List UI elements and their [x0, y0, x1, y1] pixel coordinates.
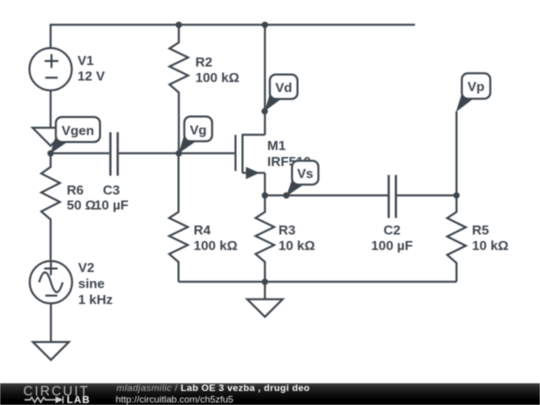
svg-text:C2: C2 — [384, 222, 401, 237]
logo diode — [56, 396, 64, 403]
wire top rail — [51, 24, 415, 26]
voltage source V1 — [29, 48, 71, 90]
transistor M1 arrow — [246, 167, 260, 179]
svg-text:12 V: 12 V — [78, 68, 105, 83]
resistor R6 — [41, 153, 60, 260]
svg-text:M1: M1 — [267, 138, 286, 153]
node dot Vg — [176, 150, 182, 156]
wire V1 to ground — [50, 90, 52, 128]
wire V1 top lead — [50, 24, 52, 49]
node dot top rail R2 — [176, 22, 182, 28]
node dot Vs flag — [283, 192, 289, 198]
logo schematic line — [25, 396, 64, 403]
svg-text:Vp: Vp — [468, 79, 485, 94]
svg-text:V1: V1 — [78, 53, 95, 68]
node flag Vd — [265, 75, 298, 112]
node dot R5 top — [453, 192, 459, 198]
resistor R2 — [170, 25, 189, 154]
svg-text:R2: R2 — [195, 55, 212, 70]
node dot source junction — [262, 192, 268, 198]
ground under V2 — [33, 342, 69, 360]
node flag Vgen — [50, 117, 100, 154]
svg-text:100 kΩ: 100 kΩ — [195, 70, 239, 85]
node dot bottom rail — [262, 279, 268, 285]
node flag Vs — [286, 161, 318, 197]
svg-text:100 kΩ: 100 kΩ — [194, 238, 238, 253]
wire Vgen to C3 — [51, 152, 110, 154]
node dot Vgen — [47, 150, 53, 156]
ground at bottom rail — [247, 299, 282, 317]
node dot top rail drain — [262, 22, 268, 28]
wire drain vertical — [264, 25, 266, 135]
wire Vg to gate — [179, 152, 235, 154]
svg-text:Vs: Vs — [297, 166, 313, 181]
ground at bottom rail stub — [264, 282, 266, 299]
svg-text:sine: sine — [78, 276, 105, 291]
node flag Vg — [179, 117, 212, 154]
capacitor C3 — [110, 132, 117, 176]
wire Vs rail — [265, 194, 388, 196]
svg-text:R3: R3 — [279, 222, 296, 237]
svg-text:100 µF: 100 µF — [371, 238, 413, 253]
svg-text:C3: C3 — [103, 182, 120, 197]
svg-text:R5: R5 — [472, 222, 490, 237]
wire Vp vertical — [456, 112, 458, 196]
svg-text:50 Ω: 50 Ω — [67, 197, 96, 212]
ground under V1 — [33, 128, 69, 146]
svg-text:R4: R4 — [194, 222, 212, 237]
capacitor C2 — [389, 175, 396, 218]
svg-text:10 kΩ: 10 kΩ — [472, 238, 509, 253]
wire C2 to R5 node — [397, 194, 457, 196]
svg-text:Vgen: Vgen — [62, 123, 95, 138]
wire C3 to Vg — [119, 152, 179, 154]
svg-text:LAB: LAB — [67, 395, 91, 405]
resistor R5 — [447, 195, 466, 281]
wire bottom rail — [179, 281, 457, 283]
svg-text:Vg: Vg — [190, 122, 207, 137]
svg-text:mladjasmilic / Lab OE 3 vezba: mladjasmilic / Lab OE 3 vezba , drugi de… — [117, 383, 310, 394]
svg-text:1 kHz: 1 kHz — [78, 292, 113, 307]
svg-text:R6: R6 — [67, 182, 84, 197]
svg-text:Vd: Vd — [275, 80, 292, 95]
svg-text:10 µF: 10 µF — [94, 197, 128, 212]
node flag Vp — [456, 73, 490, 112]
wire source vertical — [264, 173, 266, 196]
svg-text:V2: V2 — [78, 260, 94, 275]
svg-text:10 kΩ: 10 kΩ — [279, 238, 316, 253]
resistor R3 — [256, 195, 275, 281]
transistor M1 — [236, 134, 265, 173]
svg-text:http://circuitlab.com/ch5zfu5: http://circuitlab.com/ch5zfu5 — [116, 394, 234, 405]
wire V2 to ground — [50, 303, 52, 342]
voltage source V2 — [30, 261, 72, 303]
footer bar — [0, 383, 540, 405]
node dot Vd — [262, 108, 268, 114]
resistor R4 — [169, 153, 188, 281]
